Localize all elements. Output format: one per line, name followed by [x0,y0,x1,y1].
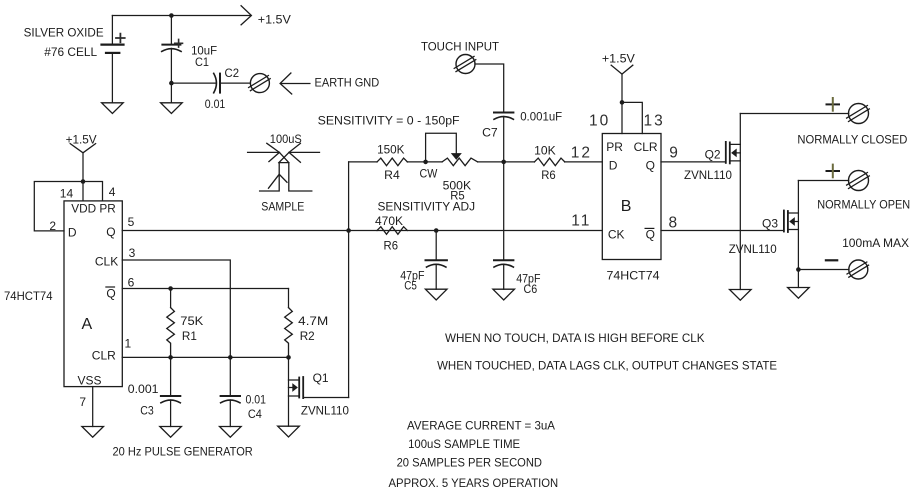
svg-text:B: B [621,198,632,215]
wire PR/D loop A [34,182,102,231]
svg-text:74HCT74: 74HCT74 [607,268,660,282]
svg-text:EARTH GND: EARTH GND [315,76,380,90]
svg-text:4.7M: 4.7M [298,314,328,328]
flip-flop U1A 74HCT74 box [64,201,122,387]
terminal normally open [847,171,870,191]
svg-text:SENSITIVITY ADJ: SENSITIVITY ADJ [378,200,476,214]
svg-text:D: D [609,158,618,172]
svg-text:APPROX. 5 YEARS OPERATION: APPROX. 5 YEARS OPERATION [389,476,559,490]
svg-text:NORMALLY OPEN: NORMALLY OPEN [817,198,910,212]
svg-text:14: 14 [60,186,74,200]
svg-text:C1: C1 [195,55,209,69]
label Q1 ZVNL110 [301,371,349,418]
wire CLR pin1 [122,356,288,358]
wire CLK pin3 feedback [122,260,230,357]
earth gnd arrow and label [280,73,379,94]
svg-text:SILVER OXIDE: SILVER OXIDE [24,26,104,40]
capacitor C5 47pF [426,231,447,290]
label C7 0.001uF [482,110,562,140]
label Q3 ZVNL110 [729,216,779,256]
svg-text:WHEN TOUCHED, DATA LAGS CLK, O: WHEN TOUCHED, DATA LAGS CLK, OUTPUT CHAN… [437,359,777,373]
svg-text:C3: C3 [140,404,154,418]
node VDD/PR loop A [81,179,86,184]
svg-text:C5: C5 [404,279,417,293]
capacitor C6 47pF [494,260,513,289]
svg-text:VSS: VSS [78,373,102,387]
svg-text:Q: Q [106,286,115,300]
sample timing icon 100uS [248,132,320,214]
flip-flop U2B 74HCT74 box [602,134,661,260]
svg-text:AVERAGE CURRENT = 3uA: AVERAGE CURRENT = 3uA [407,418,555,432]
wire row1 sample line [349,161,377,163]
svg-text:PR: PR [606,140,623,154]
label CW 500K R5 SENSITIVITY ADJ [378,167,476,214]
svg-text:C2: C2 [225,66,240,80]
svg-text:TOUCH INPUT: TOUCH INPUT [421,39,500,53]
svg-text:2: 2 [49,219,56,233]
wire Q pin5 row to FF B CK pin 11 [122,230,602,232]
power +1.5V flip-flop A [66,132,97,181]
svg-text:100mA MAX: 100mA MAX [842,236,909,250]
resistor R2 4.7M [285,289,293,358]
svg-text:Q2: Q2 [705,148,721,162]
node battery/C1 top [169,13,174,18]
ground C4 [220,427,242,438]
svg-text:Q1: Q1 [313,371,329,385]
svg-text:#76 CELL: #76 CELL [44,45,97,59]
wire Qbar pin6 [122,288,288,290]
plus sign NC [827,98,840,111]
svg-text:C4: C4 [248,407,262,421]
ground Q3 [788,288,810,299]
resistor R1 75K [167,289,175,358]
wire Q1 gate to sample line [348,162,350,398]
svg-text:100uS SAMPLE TIME: 100uS SAMPLE TIME [408,437,520,451]
svg-text:CK: CK [608,228,625,242]
svg-text:ZVNL110: ZVNL110 [301,404,349,418]
node R5 out / C7 line [501,160,506,165]
svg-text:20 SAMPLES PER SECOND: 20 SAMPLES PER SECOND [397,455,543,469]
svg-text:R6: R6 [541,168,556,182]
label 47pF C6 [516,272,540,296]
svg-text:8: 8 [669,214,680,231]
ground C3 [160,427,182,438]
svg-text:470K: 470K [375,214,403,228]
svg-text:75K: 75K [180,314,203,328]
node CLR/CLK/C4 [228,355,233,360]
node C5 junction [434,228,439,233]
svg-text:3: 3 [129,246,136,260]
capacitor C3 0.001 [161,357,180,426]
svg-text:CLR: CLR [92,348,116,362]
terminal common minus [847,260,869,279]
ground C1 [161,103,183,114]
svg-text:+1.5V: +1.5V [258,12,291,26]
wire R6 to D pin 12 [565,161,603,163]
svg-text:C6: C6 [524,282,538,296]
svg-text:SENSITIVITY = 0 - 150pF: SENSITIVITY = 0 - 150pF [318,114,460,128]
svg-text:10: 10 [589,112,610,129]
capacitor C4 0.01 [221,357,240,426]
svg-text:20 Hz PULSE GENERATOR: 20 Hz PULSE GENERATOR [113,445,254,459]
label SILVER OXIDE #76 CELL [24,26,104,59]
svg-text:R2: R2 [300,329,315,343]
svg-text:0.01: 0.01 [205,97,226,111]
node CLR/R2/Q1 [286,355,291,360]
svg-text:CLR: CLR [634,140,658,154]
svg-text:C7: C7 [482,125,498,139]
svg-text:5: 5 [128,215,135,229]
svg-text:D: D [68,226,77,240]
svg-text:4: 4 [109,185,116,199]
label 150K R4 [377,143,404,183]
resistor R6 10K [534,158,564,166]
svg-text:74HCT74: 74HCT74 [4,289,53,303]
svg-text:150K: 150K [377,143,404,157]
wire normally closed output [740,113,848,115]
svg-text:6: 6 [128,276,135,290]
svg-text:SAMPLE: SAMPLE [261,200,304,214]
node Qbar/R1 [168,286,173,291]
wire touch input to C7 [475,64,504,113]
svg-text:R6: R6 [384,238,399,252]
transistor Q1 ZVNL110 [289,357,349,426]
label Q2 ZVNL110 [684,148,732,182]
label C2 0.01 [205,66,240,111]
svg-text:R4: R4 [384,168,400,182]
node Q3 common [796,267,801,272]
ground battery [102,103,124,114]
plus sign NO [827,165,840,178]
label 4.7M R2 [298,314,328,343]
svg-text:13: 13 [644,112,665,129]
resistor R4 150K [377,158,407,166]
ground C6 [493,289,515,300]
svg-text:A: A [82,316,93,333]
svg-text:VDD PR: VDD PR [71,201,116,215]
ground C5 [425,289,447,300]
svg-text:7: 7 [79,395,86,409]
label 47pF C5 [400,269,424,293]
svg-text:CW: CW [420,167,438,181]
label 0.01 C4 [246,393,267,422]
ground Q2 [730,290,752,301]
ground Q1 [278,426,300,437]
svg-text:0.01: 0.01 [246,393,267,407]
label 0.001 C3 [128,382,159,418]
svg-text:+1.5V: +1.5V [602,52,635,66]
label 75K R1 [180,314,203,343]
svg-text:ZVNL110: ZVNL110 [729,242,777,256]
label 10K R6 [534,143,556,182]
svg-text:0.001: 0.001 [128,382,159,396]
svg-text:R1: R1 [182,329,197,343]
resistor R6 470K [377,227,407,235]
node C1 bottom [169,81,174,86]
wire normally open output [798,180,848,182]
wire R4 to pot [407,161,442,163]
node PR/CLR loop B [620,100,625,105]
transistor Q3 ZVNL110 [784,181,799,288]
svg-text:1: 1 [125,337,132,351]
wire node to R6 10K [504,161,535,163]
battery BT1 silver oxide cell [102,16,125,103]
capacitor C2 0.01 [214,73,251,92]
power +1.5V arrow [241,6,291,27]
svg-text:Q: Q [646,158,655,172]
pin Qbar label B [646,228,655,242]
svg-text:100uS: 100uS [270,132,302,146]
wire Qbar pin8 to Q3 gate [661,230,784,232]
svg-text:Q: Q [646,228,655,242]
svg-text:11: 11 [571,213,591,230]
label 10uF C1 [191,44,217,69]
wire PR CLR loop B [622,102,642,133]
potentiometer R5 500K [426,133,504,166]
wire Q pin9 to Q2 gate [661,161,726,163]
svg-text:0.001uF: 0.001uF [520,110,562,124]
power +1.5V flip-flop B [602,52,635,103]
svg-text:ZVNL110: ZVNL110 [684,168,732,182]
terminal touch input [421,39,500,73]
capacitor C1 10uF [162,16,183,103]
minus sign COM [826,259,837,261]
node CLR/R1/C3 [168,355,173,360]
svg-text:9: 9 [669,144,680,161]
wire top rail [112,15,250,17]
svg-text:CLK: CLK [95,255,118,269]
wire node to C2 [171,82,216,84]
wire common output [798,269,849,271]
svg-text:NORMALLY CLOSED: NORMALLY CLOSED [797,132,907,146]
pin Qbar label A [106,286,115,300]
svg-text:Q3: Q3 [762,216,778,230]
label 470K R6 [375,214,403,253]
svg-text:10K: 10K [534,143,556,157]
svg-text:12: 12 [571,144,592,161]
terminal normally closed [847,104,870,124]
svg-text:WHEN NO TOUCH, DATA IS HIGH BE: WHEN NO TOUCH, DATA IS HIGH BEFORE CLK [445,331,705,345]
ground VSS A [82,387,104,438]
transistor Q2 ZVNL110 [726,114,741,290]
svg-text:Q: Q [106,225,115,239]
node sample line / row [346,228,351,233]
node pot CW junction [423,160,428,165]
terminal earth ground connector [249,74,271,93]
capacitor C7 0.001uF [494,113,513,261]
